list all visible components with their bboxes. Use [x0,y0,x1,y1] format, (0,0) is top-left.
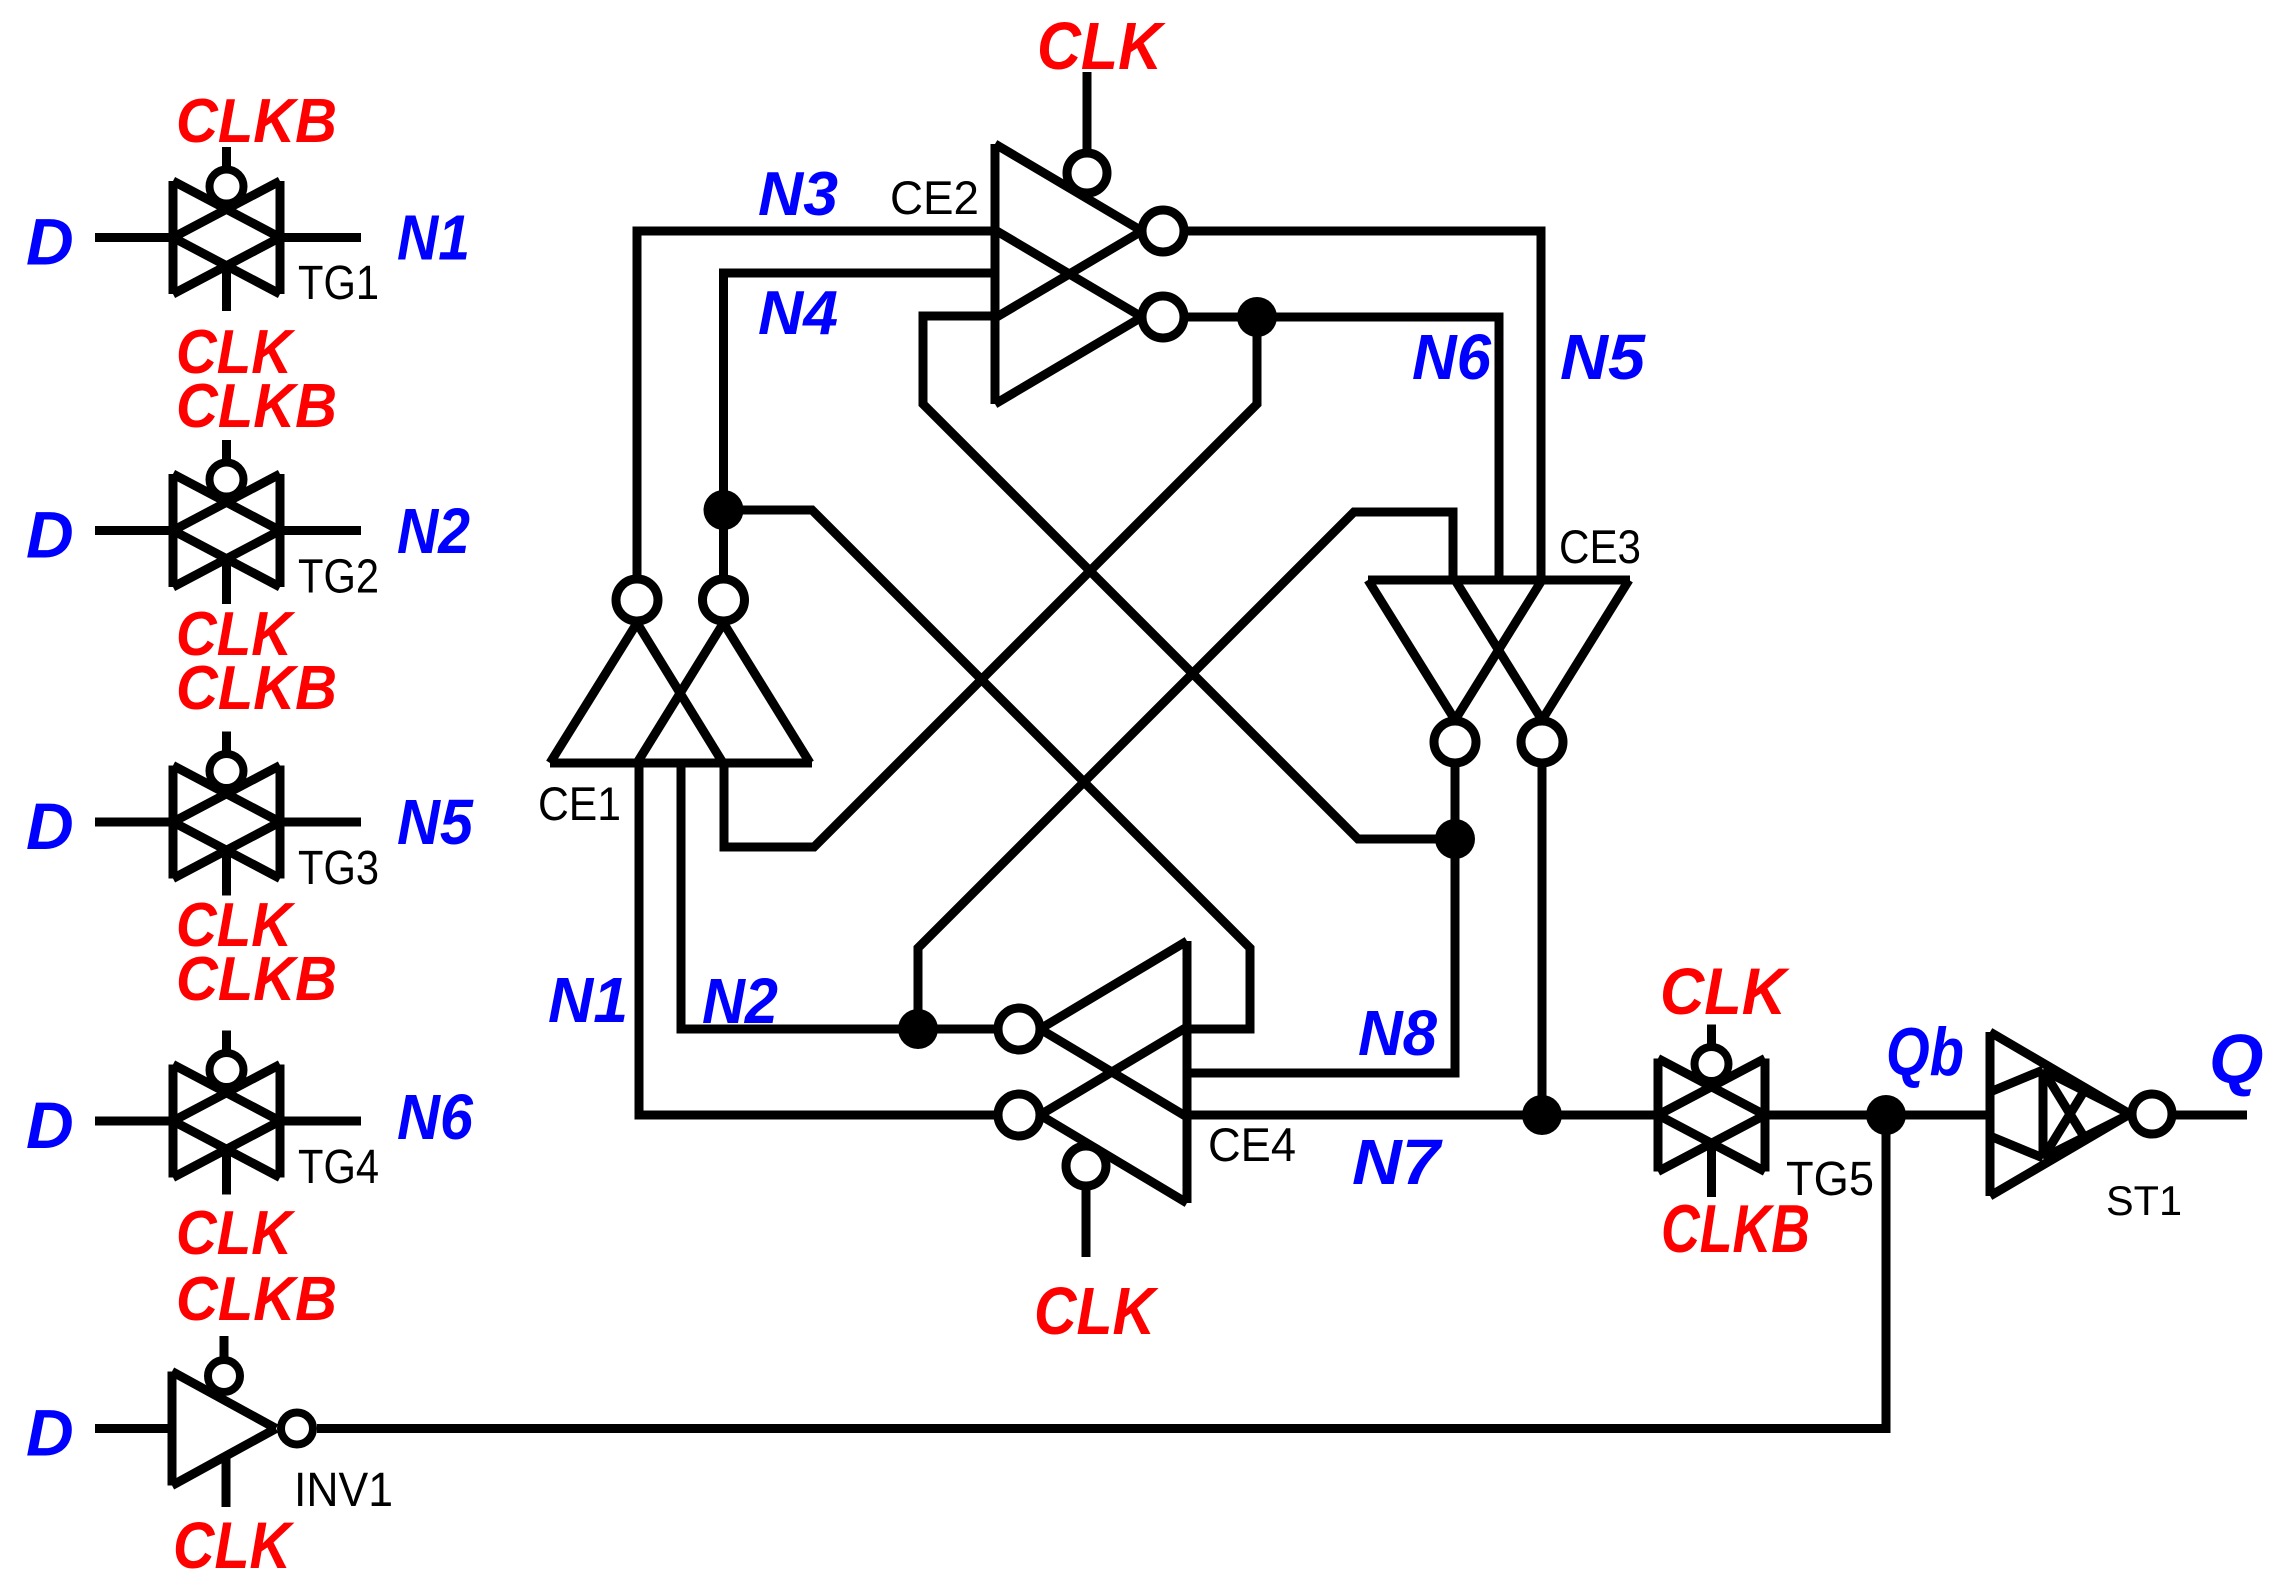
wire net N1 (CE4 out to CE1 in) [639,763,996,1115]
transmission gate TG3 [173,732,280,896]
svg-text:CLK: CLK [1660,954,1790,1028]
svg-text:D: D [26,205,74,279]
transmission gate TG1 [173,147,280,311]
svg-text:D: D [26,789,74,863]
svg-text:CE2: CE2 [890,171,979,224]
svg-text:N3: N3 [758,160,838,229]
svg-text:D: D [26,1396,74,1470]
wire D input TG1 [95,233,173,242]
inverter INV1 [172,1336,313,1507]
svg-text:N6: N6 [397,1081,473,1153]
svg-text:D: D [26,498,74,572]
svg-text:N6: N6 [1412,321,1491,393]
schmitt trigger ST1 [1990,1032,2172,1196]
svg-text:CLK: CLK [1037,9,1166,84]
junction dot on Qb [1866,1095,1906,1135]
svg-text:TG4: TG4 [298,1141,379,1194]
svg-text:CE1: CE1 [538,777,621,830]
wire N5 output TG3 [280,818,361,827]
svg-text:CLKB: CLKB [176,945,337,1014]
svg-text:Qb: Qb [1886,1014,1964,1090]
wire net N7 (CE4 to TG5) [1187,1111,1658,1120]
clocked inverter CE1 [550,579,812,763]
wire N6 output TG4 [280,1117,361,1126]
svg-text:N8: N8 [1358,997,1437,1069]
transmission gate TG2 [173,440,280,604]
svg-text:N5: N5 [1560,321,1646,393]
junction dot on N7 [1522,1095,1562,1135]
wire net N2 (CE4 out to CE1 in) [681,763,996,1029]
wire N1 output TG1 [280,233,361,242]
svg-text:CLK: CLK [173,1508,295,1582]
wire D input TG2 [95,526,173,535]
svg-text:CLKB: CLKB [176,87,337,156]
svg-text:INV1: INV1 [294,1464,393,1517]
junction dot on N2 [898,1009,938,1049]
junction dot on N4 [704,490,744,530]
wire N4 branch diagonal to CE4 [724,510,1251,1029]
wire CE3 right output down to N7 [1538,766,1547,1115]
wire net N6 (CE2 out to CE3 in) [1184,317,1499,580]
wire Q output [2172,1111,2247,1120]
svg-text:TG5: TG5 [1786,1153,1874,1206]
svg-text:CE4: CE4 [1208,1118,1296,1171]
svg-text:CLKB: CLKB [176,372,337,441]
wire net N3 (CE1 out to CE2 in) [637,231,995,576]
wire D input TG3 [95,818,173,827]
junction dot on N6 [1237,297,1277,337]
svg-text:N7: N7 [1352,1126,1444,1198]
wire net N4 (CE1 out to CE2 in) [724,273,996,576]
svg-text:N2: N2 [397,495,470,567]
svg-text:N1: N1 [397,202,470,274]
svg-text:CLKB: CLKB [176,1265,337,1334]
wire N2 output TG2 [280,526,361,535]
clocked inverter CE2 [995,144,1184,404]
svg-text:N4: N4 [758,279,838,348]
svg-text:N5: N5 [397,786,474,858]
wire CLK stub CE2 [1083,72,1092,151]
clocked inverter CE3 [1368,580,1630,763]
wire INV1 feedback to Qb [317,1115,1886,1429]
wire CLK stub CE4 [1082,1188,1091,1257]
svg-text:CLK: CLK [176,1199,296,1268]
wire N6 branch diagonal to CE1 [724,317,1257,847]
wire D input INV1 [95,1424,172,1433]
clocked inverter CE4 [998,941,1187,1203]
svg-text:CLKB: CLKB [176,654,337,723]
wire net N8 (CE3 out to CE4 in) [1187,766,1455,1073]
svg-text:D: D [26,1088,74,1162]
svg-text:ST1: ST1 [2106,1177,2182,1224]
wire CE2 third input staircase diagonal from CE3 area [923,316,1455,839]
svg-text:TG3: TG3 [298,842,379,895]
svg-text:CE3: CE3 [1559,520,1641,573]
junction dot on N8 [1435,819,1475,859]
transmission gate TG5 [1658,1025,1765,1198]
wire net N5 (CE2 out to CE3 in) [1184,231,1541,580]
svg-text:Q: Q [2209,1020,2263,1098]
wire Qb (TG5 to ST1) [1765,1111,1990,1120]
svg-text:N1: N1 [548,964,628,1036]
svg-text:TG2: TG2 [298,551,379,604]
wire D input TG4 [95,1117,173,1126]
wire N2 branch diagonal to CE3 [918,512,1453,1029]
svg-text:CLK: CLK [1034,1274,1159,1349]
transmission gate TG4 [173,1031,280,1195]
svg-text:N2: N2 [702,965,778,1037]
svg-text:TG1: TG1 [298,257,379,310]
